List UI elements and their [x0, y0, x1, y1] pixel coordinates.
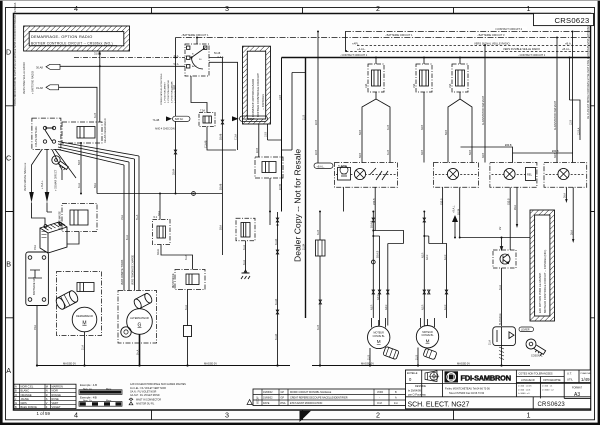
wire lock to masse: [501, 346, 503, 366]
svg-text:UTIL: UTIL: [567, 378, 573, 382]
relay R5 (transistor): [493, 250, 516, 268]
svg-text:26.A: 26.A: [514, 205, 517, 210]
svg-text:COSONAL: COSONAL: [531, 355, 543, 358]
wire R5 down to lock: [501, 268, 503, 326]
wire R5 feed: [500, 238, 502, 251]
svg-text:C.3.A8: C.3.A8: [205, 140, 208, 148]
svg-text:30.B: 30.B: [482, 153, 485, 158]
relay R1 demarreur box: [62, 118, 107, 143]
svg-text:VISA: VISA: [280, 402, 286, 405]
svg-text:V: V: [46, 401, 48, 405]
wire contact bus corner down: [281, 58, 283, 212]
alternator box: [118, 291, 157, 344]
svg-text:A3: A3: [574, 392, 580, 398]
svg-text:ORANGE: ORANGE: [21, 393, 32, 397]
svg-text:1- POSITION ARRET: 1- POSITION ARRET: [164, 81, 167, 103]
alternator feed wires: [124, 156, 139, 291]
svg-text:LEVIER: LEVIER: [521, 329, 530, 332]
wire x485 from dashed bus: [484, 45, 486, 147]
module 4 box: [544, 163, 587, 188]
svg-text:Ind.: Ind.: [394, 402, 398, 405]
svg-text:+ DEMAR DIRECT: + DEMAR DIRECT: [55, 169, 58, 191]
svg-text:31.B4: 31.B4: [303, 243, 306, 250]
loop2 wires: [424, 212, 446, 326]
scan edge bottom: [0, 423, 600, 425]
wire R4 down resistor: [187, 290, 189, 326]
svg-text:A2.R: A2.R: [426, 254, 429, 260]
battery cutoff switch box: [32, 118, 61, 149]
node arrowhead up: [99, 51, 101, 55]
svg-text:+B.A.L.: +B.A.L.: [562, 47, 571, 51]
svg-text:Telex FSTNRF Fax:04 66 73 60: Telex FSTNRF Fax:04 66 73 60: [449, 392, 485, 395]
svg-text:30.B: 30.B: [421, 125, 424, 130]
node j1: [99, 65, 101, 67]
svg-text:B: B: [15, 405, 17, 409]
svg-text:DESSINE: DESSINE: [415, 385, 426, 388]
module 1 box (klaxon): [335, 163, 398, 188]
svg-text:MASSE 0V: MASSE 0V: [457, 361, 470, 365]
fuse FB: [413, 64, 432, 92]
wire relay R1 down: [80, 143, 82, 194]
svg-text:50.B: 50.B: [78, 160, 81, 165]
svg-text:22.B: 22.B: [315, 150, 318, 155]
wire M to masse: [84, 332, 86, 366]
wire x557: [556, 38, 558, 154]
svg-text:50.B4: 50.B4: [458, 208, 461, 215]
svg-text:31.B: 31.B: [94, 113, 97, 118]
svg-text:ECHELLE: ECHELLE: [407, 373, 418, 375]
svg-text:3: 3: [225, 4, 229, 13]
svg-text:Dealer Copy -- Not for Resale: Dealer Copy -- Not for Resale: [293, 149, 303, 262]
svg-text:31.A4: 31.A4: [275, 298, 278, 305]
svg-text:31.A: 31.A: [489, 340, 492, 345]
svg-text:BLEU FONCE: BLEU FONCE: [21, 405, 38, 409]
svg-text:C: C: [6, 154, 11, 163]
svg-text:M: M: [46, 385, 48, 389]
svg-text:31.A8: 31.A8: [36, 86, 43, 90]
svg-text:ORTOGRAPHIE: ORTOGRAPHIE: [543, 379, 561, 382]
svg-text:VERS FUSIBLE VEILLE RADIO: VERS FUSIBLE VEILLE RADIO: [503, 47, 540, 51]
wire x572: [572, 32, 574, 154]
svg-text:A3.R: A3.R: [385, 304, 388, 310]
zone ticks right: [591, 106, 595, 318]
fuse FC: [449, 64, 468, 92]
svg-text:15A: 15A: [449, 83, 452, 88]
svg-text:ALIMENTATION 30A VERT: ALIMENTATION 30A VERT: [554, 100, 557, 130]
svg-text:ALTERNATEUR: ALTERNATEUR: [130, 316, 149, 320]
svg-text:O: O: [15, 393, 17, 397]
svg-text:NOIR C.EL: NOIR C.EL: [21, 385, 34, 389]
svg-text:30.A4: 30.A4: [173, 168, 176, 175]
svg-text:2: 2: [376, 411, 380, 420]
svg-text:GP: GP: [281, 397, 285, 400]
svg-text:ETAT AVANT MODIFICATION: ETAT AVANT MODIFICATION: [290, 402, 323, 405]
fan wires from cutoff: [32, 142, 140, 193]
revision table: [247, 389, 406, 406]
svg-text:NOIR: NOIR: [52, 389, 59, 393]
wire switch right exits: [209, 58, 238, 194]
svg-text:3: 3: [225, 411, 229, 420]
svg-text:50.A8: 50.A8: [220, 133, 223, 140]
relay R3 box: [255, 157, 283, 178]
thick contact vertical: [305, 58, 307, 319]
svg-text:50.B: 50.B: [359, 153, 362, 158]
wire small right: [282, 73, 306, 151]
svg-text:U.T.: U.T.: [567, 372, 572, 376]
svg-text:+B.A.L.: +B.A.L.: [317, 165, 325, 168]
svg-text:2: 2: [376, 4, 380, 13]
svg-text:B+.A: B+.A: [136, 214, 139, 220]
svg-text:31.B: 31.B: [387, 150, 390, 155]
svg-text:VOIR: VOIR: [377, 391, 383, 394]
svg-text:COTES NON TOLERANCEES: COTES NON TOLERANCEES: [519, 373, 553, 376]
svg-text:BLOCAGE: BLOCAGE: [499, 313, 502, 325]
projection cone symbol: [425, 371, 437, 382]
svg-text:Exemple : 4-B: Exemple : 4-B: [80, 383, 97, 387]
svg-text:7A.AB: 7A.AB: [153, 119, 160, 122]
scan edge top: [0, 0, 600, 2]
svg-text:FORMAT: FORMAT: [572, 387, 582, 390]
wire fuse down: [207, 127, 236, 151]
svg-text:CONVE BL: CONVE BL: [373, 335, 386, 338]
scan edge left: [0, 0, 3, 425]
node: [175, 57, 177, 59]
motor1 circle: [368, 318, 390, 349]
svg-text:CRS0623: CRS0623: [538, 402, 566, 408]
regulator cylinder: [133, 292, 154, 310]
svg-text:RESISTANCE: RESISTANCE: [172, 273, 175, 288]
svg-text:50.A: 50.A: [94, 183, 97, 188]
example strip 1: [79, 383, 122, 394]
svg-text:L<100 : ±0.5: L<100 : ±0.5: [518, 388, 531, 391]
wire drop to fuse F2: [159, 194, 161, 220]
fuse FA: [365, 64, 384, 92]
staircase wires: [461, 147, 574, 163]
fuse F2 box: [153, 216, 171, 245]
relay small: [77, 283, 94, 292]
horizontal distribution wire: [97, 193, 223, 195]
svg-text:A-B COULEUR PRINCIPALE SUR GAI: A-B COULEUR PRINCIPALE SUR GAINES MACHES: [130, 383, 186, 386]
motor2 circle: [416, 318, 438, 348]
option box A (demarrage option radio) hatched: [24, 26, 130, 51]
svg-text:RELAIS DEMARREUR: RELAIS DEMARREUR: [104, 118, 107, 143]
svg-text:50.A8: 50.A8: [214, 52, 221, 55]
motor2 plug: [423, 348, 437, 360]
arrow down 1: [29, 192, 34, 203]
svg-text:GA.N-P : FIL VIOLET ROND: GA.N-P : FIL VIOLET ROND: [130, 394, 160, 397]
svg-text:70.A: 70.A: [34, 325, 37, 330]
wire L1 to L4 drop: [345, 32, 347, 52]
wire battery to masse: [36, 306, 38, 366]
svg-text:CE PLAN EST NOTRE PROPRIETE ET: CE PLAN EST NOTRE PROPRIETE ET NE PEUT E…: [587, 20, 590, 119]
wire FA split: [362, 92, 390, 163]
wire R3 down: [269, 178, 271, 225]
svg-text:G: G: [138, 323, 142, 329]
svg-text:DEMARREUR: DEMARREUR: [76, 314, 93, 318]
module 2 box: [434, 163, 479, 188]
lock cluster: [493, 327, 516, 346]
svg-text:MARRON: MARRON: [52, 385, 63, 389]
arrowheads down small: [516, 199, 575, 243]
svg-text:31.B: 31.B: [303, 115, 306, 120]
svg-text:4: 4: [74, 411, 78, 420]
extra junction dots: [36, 37, 571, 367]
svg-text:31.A: 31.A: [185, 255, 188, 260]
svg-text:CREAT REPERE DECOUPE NACELLE/I: CREAT REPERE DECOUPE NACELLE/IDENTIFIER: [290, 397, 348, 400]
option box C (EDI option pwr) hatched: [530, 210, 555, 321]
arrow down 2: [45, 192, 50, 203]
svg-text:30.A: 30.A: [158, 211, 161, 216]
svg-text:BAT.AC: BAT.AC: [175, 118, 183, 121]
+B.A.L. arrow left: [452, 215, 458, 222]
svg-text:O.M.: O.M.: [377, 402, 383, 405]
svg-text:ANO 4 CHOC DIN: ANO 4 CHOC DIN: [155, 128, 175, 131]
note symbols: [129, 398, 133, 400]
svg-text:31.A4: 31.A4: [275, 238, 278, 245]
svg-text:19/06/02: 19/06/02: [263, 391, 273, 394]
motor1 plug: [383, 346, 399, 359]
svg-text:1: 1: [527, 411, 531, 420]
svg-text:GA.N : FIL VIOLET NOIR: GA.N : FIL VIOLET NOIR: [130, 391, 157, 394]
fuse F1: [199, 110, 215, 127]
svg-text:VERT: VERT: [52, 401, 59, 405]
svg-text:C.3.A: C.3.A: [235, 134, 238, 140]
svg-text:A: A: [6, 366, 11, 375]
svg-text:MOTEUR CONTROLE CIRCUIT -- CRS: MOTEUR CONTROLE CIRCUIT -- CRS06xx (NO.): [543, 250, 547, 313]
svg-text:1 of 59: 1 of 59: [37, 411, 51, 416]
module output wires: [344, 187, 574, 250]
svg-text:MODIF: MODIF: [257, 396, 260, 404]
svg-text:PLANCHE: PLANCHE: [581, 372, 592, 375]
connector hatch on wire: [499, 347, 504, 360]
svg-text:M: M: [82, 321, 86, 327]
svg-text:B: B: [15, 389, 17, 393]
title block outline: [406, 370, 591, 409]
svg-text:L<100 : ±0.25: L<100 : ±0.25: [518, 385, 532, 388]
svg-text:50.A8: 50.A8: [220, 183, 223, 190]
svg-text:CONTACT-OPTION RADIO: CONTACT-OPTION RADIO: [251, 78, 255, 117]
svg-text:AINSTOR DU FIL: AINSTOR DU FIL: [136, 402, 155, 405]
svg-text:22.B4: 22.B4: [279, 183, 282, 190]
svg-text:D: D: [6, 48, 11, 57]
wiring notes: [130, 383, 186, 405]
svg-text:L<1000 : ±1: L<1000 : ±1: [518, 392, 530, 395]
wire motor1 masse: [369, 348, 371, 366]
svg-text:1: 1: [527, 4, 531, 13]
svg-text:50.A.B: 50.A.B: [377, 250, 380, 258]
svg-text:70.A: 70.A: [34, 245, 37, 250]
svg-text:31.R: 31.R: [415, 355, 418, 360]
svg-text:JAUNE: JAUNE: [21, 397, 30, 401]
svg-text:VERS PAVE VEILLE RADIO: VERS PAVE VEILLE RADIO: [23, 62, 26, 94]
svg-text:B+.A: B+.A: [137, 349, 140, 355]
svg-text:26.A: 26.A: [564, 193, 567, 198]
svg-text:DATE: DATE: [263, 402, 270, 405]
svg-text:31.A: 31.A: [185, 305, 188, 310]
svg-text:+ BATTERIE RADIO: + BATTERIE RADIO: [32, 71, 35, 94]
svg-text:B: B: [6, 260, 11, 269]
svg-text:31.A: 31.A: [78, 183, 81, 188]
svg-text:VERS MASSE NACELLE: VERS MASSE NACELLE: [24, 162, 27, 191]
svg-text:MODIF CIRCUIT MONOBL NACELLE: MODIF CIRCUIT MONOBL NACELLE: [290, 391, 332, 394]
svg-text:EDI OPTION PWR LE MANIP.: EDI OPTION PWR LE MANIP.: [538, 272, 542, 313]
wire F3 to chassis ground: [245, 241, 247, 273]
svg-text:P.silec MONTCHETEAU Tel:04 6: P.silec MONTCHETEAU Tel:04 66 70 56: [445, 388, 490, 391]
svg-text:12.B: 12.B: [570, 120, 573, 125]
zone ticks left: [5, 106, 13, 318]
svg-text:7.5A: 7.5A: [200, 110, 205, 113]
svg-text:RAD.CONT: RAD.CONT: [242, 118, 255, 121]
svg-text:L<1000 : ±2: L<1000 : ±2: [542, 388, 554, 391]
svg-text:50.B: 50.B: [359, 130, 362, 135]
svg-text:31.B: 31.B: [94, 52, 100, 56]
svg-text:+A.A.L.: +A.A.L.: [357, 47, 366, 51]
svg-text:- CONTACT CIRCUIT 1: - CONTACT CIRCUIT 1: [340, 53, 368, 57]
sheet number box CRS0623: [534, 13, 594, 25]
svg-text:DEMARRAGE- OPTION RADIO: DEMARRAGE- OPTION RADIO: [31, 34, 93, 39]
svg-text:15A: 15A: [413, 83, 416, 88]
svg-text:+B.A.L.: +B.A.L.: [452, 205, 455, 213]
solenoid cylinder: [54, 289, 79, 311]
extra wire labels: [34, 85, 573, 360]
projection circle symbol (in separate cell): [430, 372, 438, 380]
svg-text:M: M: [377, 339, 381, 344]
svg-text:BOITIER CONTROLE CIRCUIT: BOITIER CONTROLE CIRCUIT: [256, 73, 260, 117]
masse line left: [37, 365, 290, 367]
wire switch bottom: [185, 66, 207, 113]
svg-text:26.A: 26.A: [570, 230, 573, 235]
chassis ground: [241, 273, 250, 279]
battery 3d: [40, 222, 67, 253]
svg-text:GP: GP: [281, 391, 285, 394]
starter motor box: [54, 272, 101, 336]
svg-text:ACC: ACC: [192, 65, 197, 68]
svg-text:A3.R: A3.R: [377, 294, 380, 300]
bus fusible veille radio dashed: [346, 51, 591, 53]
svg-text:MAST IN CONNECTOR: MAST IN CONNECTOR: [136, 398, 161, 401]
zone ticks top: [152, 8, 454, 14]
svg-text:FDI-SAMBRON: FDI-SAMBRON: [461, 373, 511, 382]
svg-text:31.A: 31.A: [243, 245, 246, 250]
pill +B.A.L. module1: [314, 163, 333, 168]
svg-text:CONVE BL: CONVE BL: [421, 334, 434, 337]
svg-text:COMMUTATEUR 4 POSITIONS: COMMUTATEUR 4 POSITIONS: [160, 73, 163, 105]
svg-text:10.B: 10.B: [265, 132, 268, 137]
svg-text:A2.R: A2.R: [422, 304, 425, 310]
relay R4 box: [172, 270, 205, 290]
key 3d bottom: [524, 337, 547, 357]
wire +B.A. under box A: [99, 51, 101, 122]
svg-text:15.A: 15.A: [121, 215, 124, 220]
bus batterie circuit 1 dash-dot: [176, 37, 591, 39]
svg-text:31.B: 31.B: [317, 325, 320, 330]
wire FC split: [448, 92, 472, 163]
main vertical batterie 1: [175, 38, 177, 194]
wire 31.A8 down: [59, 87, 97, 193]
wire G to masse heavy: [139, 334, 141, 365]
svg-text:N: N: [46, 389, 48, 393]
bus veille radio dashed: [357, 45, 591, 47]
bowtie connector marks: [174, 120, 279, 314]
svg-text:A2.R: A2.R: [422, 252, 425, 258]
svg-text:REL: REL: [527, 173, 533, 177]
example strip 2: [79, 395, 122, 406]
svg-text:10A: 10A: [365, 83, 368, 88]
svg-text:VERS COMPTE TOURS: VERS COMPTE TOURS: [122, 259, 124, 285]
scan edge right: [598, 0, 600, 425]
node: [175, 193, 177, 195]
wire center down: [277, 212, 279, 366]
long verticals center-right: [373, 212, 403, 326]
relay R2 box: [59, 204, 98, 232]
svg-text:TOUTE MODIFICATION NE PEUT ETR: TOUTE MODIFICATION NE PEUT ETRE EFFECTUE…: [14, 2, 17, 106]
svg-text:31.A4: 31.A4: [275, 333, 278, 340]
svg-text:31.B: 31.B: [317, 230, 320, 235]
logo square: [445, 371, 459, 382]
svg-text:LONGUEUR: LONGUEUR: [521, 379, 535, 382]
svg-text:31.A: 31.A: [499, 285, 502, 290]
svg-text:50.B: 50.B: [469, 150, 472, 155]
svg-text:EV: EV: [499, 226, 502, 230]
svg-text:-- CRS06xx: -- CRS06xx: [261, 94, 265, 110]
wires below option box B: [259, 124, 282, 157]
svg-text:MASSE 0V: MASSE 0V: [361, 361, 374, 365]
svg-text:R: R: [46, 393, 48, 397]
pill arrow +B.A.L.: [46, 85, 59, 90]
svg-text:50.B: 50.B: [445, 130, 448, 135]
svg-text:31.A: 31.A: [82, 345, 85, 350]
module 3 box: [490, 163, 537, 188]
svg-text:E50.B: E50.B: [373, 198, 376, 205]
title block grid: [406, 370, 591, 409]
ignition switch box: [185, 44, 209, 76]
wire resistor to masse: [187, 337, 189, 366]
svg-text:4: 4: [74, 4, 78, 13]
svg-text:30.A: 30.A: [174, 55, 179, 58]
wire R2 to battery zone: [67, 232, 79, 245]
pill arrow +B.A.: [46, 64, 60, 69]
fold mark bottom: [300, 411, 312, 422]
svg-text:A3.R: A3.R: [371, 304, 374, 310]
wire x320 with fuse: [319, 212, 321, 366]
svg-text:50.A: 50.A: [220, 225, 223, 230]
battery plate: [26, 252, 49, 306]
option box B (contact option radio) hatched: [243, 46, 271, 124]
svg-text:A: A: [15, 385, 17, 389]
svg-text:MASSE 0V: MASSE 0V: [204, 361, 217, 365]
svg-text:22.B: 22.B: [256, 148, 259, 153]
svg-text:12.B.A: 12.B.A: [577, 127, 580, 135]
svg-text:30.B: 30.B: [554, 153, 557, 158]
svg-text:BLOC DE MASSE: BLOC DE MASSE: [59, 211, 62, 230]
svg-text:- CONTACT CIRCUIT 1: - CONTACT CIRCUIT 1: [518, 53, 546, 57]
fuse F3 box: [236, 218, 255, 241]
svg-text:/ CONTACT CIRCUIT 2: / CONTACT CIRCUIT 2: [495, 27, 523, 31]
pill callout 2: [232, 116, 268, 121]
resistor: [184, 326, 192, 337]
wire 30.A8 to key switch: [60, 65, 185, 67]
svg-text:+B.A.: +B.A.: [565, 41, 572, 45]
svg-text:CRS0623: CRS0623: [554, 16, 589, 25]
svg-text:31.B: 31.B: [387, 125, 390, 130]
svg-text:COUPE BATTERIE: COUPE BATTERIE: [35, 126, 38, 147]
bus contact circuit 2 dash-dot: [345, 31, 591, 33]
svg-text:- BATTERIE CIRCUIT 1: - BATTERIE CIRCUIT 1: [385, 33, 413, 37]
svg-text:50.A: 50.A: [174, 63, 179, 66]
svg-text:- BATTERIE CIRCUIT 3: - BATTERIE CIRCUIT 3: [477, 33, 505, 37]
svg-text:L<100 : ±1: L<100 : ±1: [542, 385, 553, 388]
bus contact circuit 1 thick solid: [282, 57, 591, 59]
